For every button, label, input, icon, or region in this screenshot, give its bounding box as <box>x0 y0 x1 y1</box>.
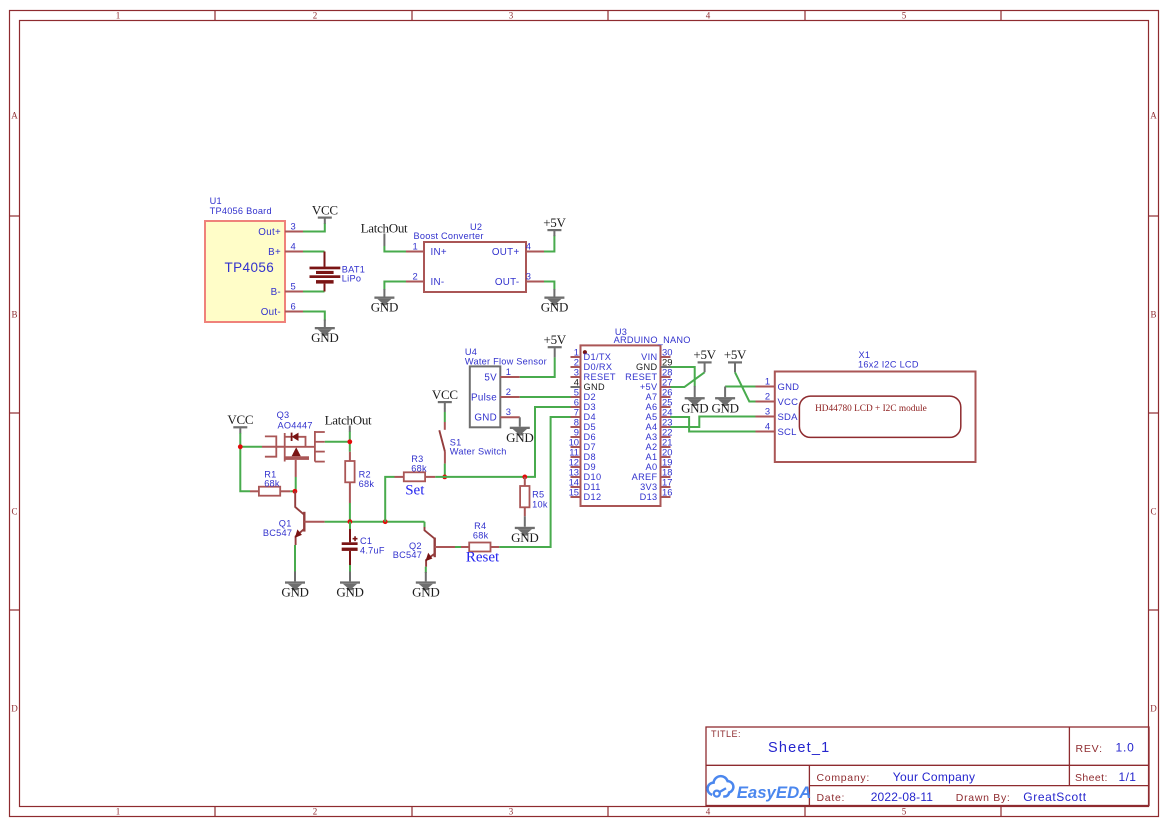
svg-text:3: 3 <box>506 406 511 417</box>
svg-text:Company:: Company: <box>817 772 870 784</box>
svg-text:C: C <box>1150 506 1156 516</box>
svg-text:AO4447: AO4447 <box>278 421 313 431</box>
svg-text:VCC: VCC <box>432 387 458 402</box>
wire <box>383 289 385 297</box>
svg-text:+5V: +5V <box>640 382 658 392</box>
svg-text:6: 6 <box>291 300 296 311</box>
junction <box>383 519 388 524</box>
wire <box>444 408 446 412</box>
svg-text:A4: A4 <box>646 422 658 432</box>
svg-text:GND: GND <box>584 382 605 392</box>
svg-text:2: 2 <box>313 11 318 21</box>
junction <box>348 519 353 524</box>
svg-text:GreatScott: GreatScott <box>1023 790 1086 804</box>
ground <box>412 581 439 599</box>
svg-text:Sheet:: Sheet: <box>1075 772 1108 784</box>
U3 pin 30 (VIN) <box>641 346 672 362</box>
svg-text:1: 1 <box>413 240 418 251</box>
svg-text:3: 3 <box>526 270 531 281</box>
svg-text:GND: GND <box>336 585 363 600</box>
svg-text:VIN: VIN <box>641 352 657 362</box>
svg-text:3: 3 <box>291 220 296 231</box>
wire U1.5 to BAT1- <box>303 291 325 293</box>
svg-text:68k: 68k <box>473 530 489 540</box>
U3 pin 1 (D1/TX) <box>571 346 612 362</box>
wire Q3 drain to LatchOut <box>325 441 350 443</box>
svg-text:3: 3 <box>765 406 770 417</box>
junction <box>522 475 527 480</box>
svg-text:HD44780 LCD + I2C module: HD44780 LCD + I2C module <box>815 404 927 414</box>
svg-text:D: D <box>1150 703 1157 713</box>
junction <box>347 439 352 444</box>
svg-text:1: 1 <box>506 366 511 377</box>
svg-text:A1: A1 <box>646 452 658 462</box>
U3 pin 6 (D3) <box>571 396 596 412</box>
wire <box>724 387 726 398</box>
svg-text:D12: D12 <box>584 492 602 502</box>
battery BAT1 LiPo <box>310 252 366 292</box>
wire LatchOut to U2.IN+ <box>384 246 406 252</box>
power +5V <box>693 347 716 372</box>
U3 pin 24 (A5) <box>646 406 673 422</box>
wire <box>294 572 296 582</box>
svg-text:U1: U1 <box>210 196 222 206</box>
svg-text:Sheet_1: Sheet_1 <box>768 740 830 756</box>
wire Set rail to U3.D3 <box>435 407 570 477</box>
svg-text:2: 2 <box>413 270 418 281</box>
wire <box>553 289 555 297</box>
U3 pin 21 (A2) <box>646 436 673 452</box>
svg-text:68k: 68k <box>359 479 375 489</box>
wire R4 to U3.D4 <box>499 417 570 547</box>
wire LatchOut to R2 <box>349 432 351 452</box>
svg-text:1: 1 <box>116 11 121 21</box>
svg-text:16x2 I2C LCD: 16x2 I2C LCD <box>858 359 919 369</box>
svg-text:4: 4 <box>526 240 531 251</box>
svg-text:TITLE:: TITLE: <box>711 729 741 739</box>
svg-text:GND: GND <box>778 382 800 393</box>
wire rail to Q2 collector <box>424 522 426 528</box>
svg-text:10k: 10k <box>532 499 548 509</box>
wire U4.1 to +5V <box>520 357 555 377</box>
svg-text:D11: D11 <box>584 482 601 492</box>
transistor Q1 BC547 <box>263 491 325 545</box>
power +5V <box>543 215 566 236</box>
svg-text:15: 15 <box>569 486 579 497</box>
svg-text:2: 2 <box>765 391 770 402</box>
svg-text:2022-08-11: 2022-08-11 <box>871 790 934 804</box>
wire U1.6 to GND <box>303 312 325 321</box>
sensor U4 Water Flow Sensor <box>465 347 547 427</box>
svg-text:D: D <box>11 703 18 713</box>
svg-text:A3: A3 <box>646 432 658 442</box>
U3 pin 26 (A7) <box>646 386 673 402</box>
U3 pin 20 (A1) <box>646 446 673 462</box>
power +5V <box>544 332 567 358</box>
wire U3.27 to +5V <box>671 372 705 387</box>
svg-text:A0: A0 <box>646 462 658 472</box>
svg-text:Water Switch: Water Switch <box>450 447 507 457</box>
svg-text:Out-: Out- <box>261 307 281 318</box>
U3 pin 25 (A6) <box>646 396 673 412</box>
svg-text:4.7uF: 4.7uF <box>360 546 385 556</box>
power VCC <box>432 387 458 408</box>
U3 pin 19 (A0) <box>646 456 673 472</box>
wire U2.OUT- to GND <box>544 282 554 291</box>
U3 pin 7 (D4) <box>571 406 596 422</box>
svg-text:Pulse: Pulse <box>471 392 497 403</box>
svg-text:AREF: AREF <box>632 472 658 482</box>
U3 pin 5 (D2) <box>571 386 596 402</box>
wire R3 to rail <box>385 477 394 522</box>
svg-text:1: 1 <box>116 807 121 817</box>
converter U2 Boost Converter <box>406 222 544 292</box>
ground <box>511 527 538 545</box>
svg-text:EasyEDA: EasyEDA <box>737 783 812 802</box>
svg-text:LatchOut: LatchOut <box>325 412 372 427</box>
wire GND to X1.GND <box>725 386 755 388</box>
svg-text:B-: B- <box>271 287 281 298</box>
svg-text:D1/TX: D1/TX <box>584 352 612 362</box>
svg-text:1/1: 1/1 <box>1119 770 1137 784</box>
svg-text:Set: Set <box>405 482 425 498</box>
svg-text:C: C <box>11 506 17 516</box>
svg-text:A2: A2 <box>646 442 658 452</box>
svg-text:BC547: BC547 <box>263 528 292 538</box>
wire <box>349 572 351 582</box>
svg-text:VCC: VCC <box>312 202 338 217</box>
ground <box>541 297 568 315</box>
wire U2.OUT+ to +5V <box>544 235 554 252</box>
svg-text:3: 3 <box>509 11 514 21</box>
svg-text:1: 1 <box>765 376 770 387</box>
svg-text:B: B <box>1150 309 1156 319</box>
resistor R5 10k <box>520 477 548 516</box>
wire U1.3 to VCC <box>303 223 325 232</box>
wire <box>324 320 326 328</box>
svg-text:3V3: 3V3 <box>640 482 657 492</box>
svg-text:Boost Converter: Boost Converter <box>414 231 484 241</box>
svg-text:B: B <box>11 309 17 319</box>
svg-text:5: 5 <box>902 11 907 21</box>
svg-text:5: 5 <box>902 807 907 817</box>
U3 pin 9 (D6) <box>571 426 596 442</box>
EasyEDA logo <box>708 776 812 802</box>
junction <box>293 489 298 494</box>
svg-text:Your Company: Your Company <box>893 770 976 784</box>
lcd X1 16x2 I2C LCD <box>756 350 976 462</box>
svg-text:IN+: IN+ <box>431 247 447 258</box>
svg-text:GND: GND <box>681 400 708 415</box>
svg-text:Date:: Date: <box>817 792 846 804</box>
ground <box>506 427 533 445</box>
mcu U3 ARDUINO_NANO <box>581 327 691 506</box>
wire Q2 emitter to GND <box>425 567 427 573</box>
wire Q3 source down <box>295 477 297 491</box>
svg-text:D5: D5 <box>584 422 596 432</box>
wire R1 to node <box>290 490 295 492</box>
svg-text:RESET: RESET <box>625 372 657 382</box>
svg-text:A7: A7 <box>646 392 658 402</box>
resistor R2 68k <box>345 452 374 503</box>
wire +5V to X1.VCC <box>735 372 756 401</box>
ground <box>681 397 708 415</box>
U3 pin 13 (D10) <box>569 466 602 482</box>
wire Q1 emitter to GND <box>294 545 296 573</box>
svg-text:D0/RX: D0/RX <box>584 362 613 372</box>
svg-text:+5V: +5V <box>693 347 716 362</box>
svg-text:SDA: SDA <box>778 412 799 423</box>
U3 pin 15 (D12) <box>569 486 602 502</box>
U3 pin 14 (D11) <box>569 476 601 492</box>
U3 pin 27 (+5V) <box>640 376 673 392</box>
svg-text:ARDUINO_NANO: ARDUINO_NANO <box>614 335 691 345</box>
wire <box>425 572 427 581</box>
svg-text:B+: B+ <box>268 247 281 258</box>
wire <box>524 516 526 527</box>
svg-text:Out+: Out+ <box>258 227 281 238</box>
svg-text:D3: D3 <box>584 402 596 412</box>
svg-text:A: A <box>11 110 18 120</box>
U3 pin 17 (3V3) <box>640 476 672 492</box>
svg-text:GND: GND <box>511 530 538 545</box>
switch S1 Water Switch <box>439 422 506 464</box>
svg-text:16: 16 <box>662 486 672 497</box>
svg-text:4: 4 <box>706 11 711 21</box>
U3 pin 11 (D8) <box>569 446 596 462</box>
svg-text:D13: D13 <box>640 492 658 502</box>
net label LatchOut <box>361 220 408 246</box>
junction <box>238 444 243 449</box>
U3 pin 12 (D9) <box>569 456 596 472</box>
svg-text:OUT+: OUT+ <box>492 247 520 258</box>
svg-text:GND: GND <box>474 413 497 424</box>
U3 pin 28 (RESET) <box>625 366 672 382</box>
svg-text:5: 5 <box>291 280 296 291</box>
ground <box>711 397 738 415</box>
wire Q2 base to R4 <box>455 546 461 548</box>
U3 pin 4 (GND) <box>571 376 605 392</box>
U3 pin 16 (D13) <box>640 486 673 502</box>
svg-text:GND: GND <box>412 585 439 600</box>
svg-text:+5V: +5V <box>543 215 566 230</box>
svg-text:RESET: RESET <box>584 372 616 382</box>
svg-text:GND: GND <box>506 430 533 445</box>
svg-text:TP4056: TP4056 <box>225 260 275 275</box>
wire base rail <box>325 521 425 523</box>
svg-text:VCC: VCC <box>227 412 253 427</box>
svg-text:3: 3 <box>509 807 514 817</box>
ground <box>336 581 363 599</box>
svg-text:REV:: REV: <box>1076 743 1103 755</box>
U3 pin 29 (GND) <box>636 356 672 372</box>
net label LatchOut <box>325 412 372 432</box>
wire S1 to set rail <box>444 464 446 477</box>
svg-text:SCL: SCL <box>778 427 797 438</box>
power VCC <box>227 412 253 433</box>
svg-text:Drawn By:: Drawn By: <box>956 792 1011 804</box>
U3 pin 3 (RESET) <box>571 366 616 382</box>
U3 pin 18 (AREF) <box>632 466 673 482</box>
svg-text:VCC: VCC <box>778 397 799 408</box>
svg-text:R5: R5 <box>532 489 544 499</box>
svg-text:D4: D4 <box>584 412 596 422</box>
svg-text:68k: 68k <box>264 478 280 488</box>
svg-text:4: 4 <box>706 807 711 817</box>
wire VCC to R1 <box>240 433 250 491</box>
svg-text:5V: 5V <box>484 372 497 383</box>
svg-text:GND: GND <box>311 330 338 345</box>
wire U3.29 to GND <box>671 367 695 387</box>
wire C1 to GND <box>349 565 351 573</box>
svg-text:GND: GND <box>636 362 657 372</box>
svg-text:Q3: Q3 <box>277 410 290 420</box>
svg-text:68k: 68k <box>411 464 427 474</box>
svg-text:A5: A5 <box>646 412 658 422</box>
power +5V <box>724 347 747 372</box>
svg-text:BC547: BC547 <box>393 550 422 560</box>
wire U1.4 to BAT1+ <box>303 251 325 253</box>
wire U4.2 to U3.D2 <box>520 396 571 398</box>
svg-text:D9: D9 <box>584 462 596 472</box>
transistor Q3 AO4447 (P-MOSFET) <box>262 410 325 477</box>
wire VCC to S1 <box>444 412 446 422</box>
svg-text:D10: D10 <box>584 472 602 482</box>
svg-text:GND: GND <box>541 300 568 315</box>
resistor R4 68k <box>461 521 499 552</box>
wire R2 to rail <box>349 503 351 522</box>
U3 pin 10 (D7) <box>569 436 596 452</box>
U3 pin 23 (A4) <box>646 416 673 432</box>
svg-text:LiPo: LiPo <box>342 274 361 284</box>
capacitor C1 4.7uF <box>342 522 385 565</box>
svg-text:D6: D6 <box>584 432 596 442</box>
svg-text:IN-: IN- <box>431 277 445 288</box>
svg-text:2: 2 <box>313 807 318 817</box>
svg-text:Q1: Q1 <box>279 518 292 528</box>
svg-text:A6: A6 <box>646 402 658 412</box>
resistor R3 68k <box>395 454 436 481</box>
svg-text:4: 4 <box>291 240 296 251</box>
junction <box>442 475 447 480</box>
wire U3.A5 to X1.SCL <box>671 417 756 432</box>
svg-text:D8: D8 <box>584 452 596 462</box>
svg-text:A: A <box>1150 110 1157 120</box>
svg-text:+5V: +5V <box>544 332 567 347</box>
svg-text:Reset: Reset <box>466 550 500 566</box>
svg-text:D7: D7 <box>584 442 596 452</box>
ground <box>281 581 308 599</box>
svg-text:GND: GND <box>371 300 398 315</box>
ground <box>311 327 338 345</box>
svg-text:GND: GND <box>711 400 738 415</box>
chip U1 TP4056 Board <box>205 196 303 322</box>
wire VCC to Q3 gate <box>240 446 262 448</box>
U3 pin 22 (A3) <box>646 426 673 442</box>
svg-text:LatchOut: LatchOut <box>361 220 408 235</box>
ground <box>371 297 398 315</box>
svg-text:+5V: +5V <box>724 347 747 362</box>
U3 pin 8 (D5) <box>571 416 596 432</box>
svg-text:GND: GND <box>281 585 308 600</box>
svg-text:OUT-: OUT- <box>495 277 520 288</box>
svg-text:D2: D2 <box>584 392 596 402</box>
title block <box>706 727 1149 806</box>
wire <box>519 417 521 426</box>
svg-text:X1: X1 <box>859 350 871 360</box>
wire U2.IN- to GND <box>384 282 406 291</box>
power VCC <box>312 202 338 223</box>
svg-text:TP4056 Board: TP4056 Board <box>210 206 272 216</box>
svg-text:4: 4 <box>765 421 770 432</box>
wire <box>694 386 696 397</box>
transistor Q2 BC547 <box>393 527 455 567</box>
wire U3.A4 to X1.SDA <box>671 417 756 428</box>
resistor R1 68k <box>250 470 290 496</box>
svg-text:2: 2 <box>506 386 511 397</box>
svg-text:1.0: 1.0 <box>1116 741 1135 755</box>
U3 pin 2 (D0/RX) <box>571 356 613 372</box>
